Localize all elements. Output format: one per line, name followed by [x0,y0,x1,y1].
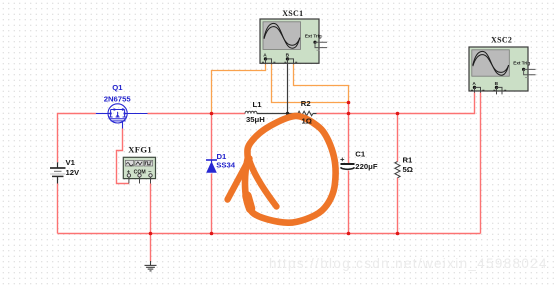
wire orange probe XSC1 B- to output node [294,64,349,103]
wire C1 branch vertical [348,103,350,234]
wire bottom ground rail [58,233,481,235]
wire black net L1 to R2 [257,113,317,115]
wire XSC2 A- down to ground rail [480,92,482,233]
junction node ground rail XFG1 [149,232,153,236]
wire XFG1 minus to ground rail [150,184,152,234]
transistor Q1 2N6755 MOSFET [96,104,148,129]
annotation scribble: main loop [245,116,336,223]
junction node R1 top [396,112,400,116]
svg-text:XSC2: XSC2 [491,36,512,45]
svg-text:R2: R2 [301,99,311,108]
svg-text:Ext Trig: Ext Trig [305,33,322,38]
svg-text:XFG1: XFG1 [128,144,152,154]
svg-text:https://blog.csdn.net/weixin_4: https://blog.csdn.net/weixin_45988024 [269,256,548,271]
svg-text:5Ω: 5Ω [403,165,413,174]
oscilloscope XSC1 [260,19,327,64]
wire D1 branch vertical [211,114,213,234]
wire R1 branch vertical [397,114,399,234]
wire Q1 source to switch node to L1 [148,113,246,115]
resistor R1 [395,162,400,178]
svg-text:1Ω: 1Ω [302,117,312,126]
annotation scribble: right leg [250,161,277,207]
junction node C1 top [347,112,351,116]
annotation scribble: thick blob [247,196,251,209]
svg-text:2N6755: 2N6755 [104,94,132,103]
function generator XFG1 [123,157,155,183]
svg-text:C1: C1 [355,150,366,159]
junction node C1 bottom [347,232,351,236]
junction node R1 bottom [396,232,400,236]
inductor L1 [245,111,257,113]
junction node probe A- meet [347,101,351,105]
diode D1 SS34 [206,160,217,173]
svg-text:12V: 12V [66,168,81,177]
svg-text:SS34: SS34 [216,161,236,170]
svg-text:Ext Trig: Ext Trig [513,60,530,65]
capacitor C1 [340,158,354,170]
resistor R2 [298,111,313,116]
oscilloscope XSC2 [469,47,536,94]
svg-text:XSC1: XSC1 [282,9,303,18]
junction node switch-node D1 top [210,112,214,116]
wire ground stub below rail [150,234,152,262]
wire black probe XSC1 B+ to L1-R2 node [287,64,289,114]
annotation scribble: left leg [228,159,250,200]
svg-text:L1: L1 [253,100,263,109]
junction node L1-R2 black [286,112,289,115]
battery V1 [50,162,66,183]
wire orange probe XSC1 A- to output node [272,64,349,103]
svg-text:220μF: 220μF [355,162,378,171]
ground [145,261,157,271]
wire V1 minus down to rail [57,184,59,234]
wire output net red: R2 right to XSC2 A+ [317,92,475,113]
wire top rail left red: V1 plus up and over to Q1 drain [58,114,96,163]
junction node D1 bottom [210,232,214,236]
svg-text:35μH: 35μH [246,115,265,124]
svg-text:Q1: Q1 [112,83,123,92]
wire orange probe XSC1 A+ to switch node [212,64,266,113]
svg-text:V1: V1 [66,158,76,167]
wire Q1 gate to XFG1 plus (red) [117,129,129,184]
svg-text:R1: R1 [403,156,414,165]
